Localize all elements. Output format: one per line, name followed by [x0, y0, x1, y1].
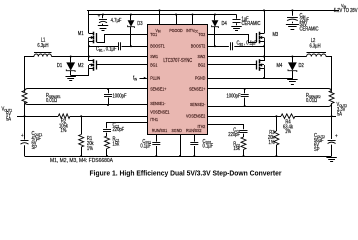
node VOUT1 label	[1, 106, 12, 123]
wire M3 drain to VIN rail	[263, 9, 265, 33]
wire M2 source to ground	[71, 69, 89, 76]
wire VOSENSE2 line	[208, 116, 282, 118]
svg-text:PGOOD: PGOOD	[169, 27, 182, 33]
svg-text:CERAMIC: CERAMIC	[241, 20, 261, 27]
svg-text:VOSENSE1: VOSENSE1	[150, 109, 170, 115]
wire PGND line	[208, 78, 293, 80]
diode D3	[128, 14, 143, 48]
svg-text:M1: M1	[78, 31, 84, 38]
wire SENSE1- line	[25, 102, 149, 105]
capacitor CC2 220pF	[228, 127, 247, 138]
capacitor CSS2 0.1uF	[190, 134, 213, 157]
svg-text:+: +	[335, 133, 338, 140]
inductor L1 6.3uH	[34, 37, 52, 57]
svg-text:4.7µF: 4.7µF	[111, 18, 122, 25]
svg-text:D4: D4	[222, 20, 228, 27]
resistor R1 20k	[79, 115, 94, 157]
wire RSENSE2 to VOUT2 node	[331, 106, 333, 117]
svg-text:5.2V TO 28V: 5.2V TO 28V	[334, 8, 358, 15]
capacitor 1000pF ch2	[226, 88, 248, 107]
wire SENSE1+ line	[25, 89, 149, 93]
resistor R3 20k	[268, 115, 279, 157]
capacitor CIN 22uF 50V ceramic	[286, 9, 319, 32]
svg-text:Figure 1. High Efficiency Dual: Figure 1. High Efficiency Dual 5V/3.3V S…	[90, 168, 282, 177]
resistor R2 105k	[58, 114, 148, 135]
wire bottom ground rail	[25, 156, 332, 158]
svg-text:PGND: PGND	[195, 75, 205, 81]
wire RSENSE1 to VOUT node	[24, 105, 26, 117]
svg-text:M4: M4	[276, 63, 282, 70]
svg-text:0.1µF: 0.1µF	[202, 143, 213, 150]
wire M1 drain to VIN rail	[87, 11, 89, 34]
diode D1	[57, 56, 75, 76]
wire M4 drain to SW2	[264, 57, 266, 62]
note MOSFET types	[50, 158, 114, 164]
wire SGND stub	[179, 134, 181, 157]
svg-text:5A: 5A	[6, 116, 12, 123]
svg-text:PLLIN: PLLIN	[150, 75, 160, 81]
svg-text:0.1µF: 0.1µF	[140, 143, 151, 150]
diode D2	[288, 56, 304, 79]
transistor M3	[257, 32, 279, 44]
capacitor 1uF ceramic	[231, 15, 261, 31]
svg-text:CERAMIC: CERAMIC	[299, 26, 319, 33]
svg-text:VIN: VIN	[155, 27, 160, 33]
ground for D1/M2	[66, 77, 76, 81]
svg-text:D2: D2	[298, 63, 304, 70]
node VOUT2 label	[336, 102, 347, 117]
svg-text:220pF: 220pF	[228, 132, 240, 139]
svg-text:M3: M3	[273, 32, 279, 39]
transistor M2	[78, 59, 97, 71]
wire M2 drain to SW1	[88, 57, 90, 62]
wire SENSE2- line	[208, 103, 332, 107]
capacitor CB1 0.1uF	[89, 42, 148, 53]
wire VOUT1 line	[17, 116, 58, 118]
wire SW2 line	[208, 56, 307, 58]
svg-text:1%: 1%	[285, 129, 292, 136]
wire M1 source to SW1	[88, 42, 90, 58]
svg-text:M2: M2	[78, 63, 84, 70]
capacitor CC1 220pF	[103, 122, 124, 136]
wire ITH2 line	[208, 125, 244, 130]
wire M3 source to SW2	[263, 42, 265, 58]
resistor RC2 15k	[233, 137, 246, 157]
svg-text:BOOST1: BOOST1	[150, 43, 165, 49]
svg-text:ITH1: ITH1	[150, 116, 158, 122]
svg-text:LTC3707-SYNC: LTC3707-SYNC	[163, 57, 192, 63]
transistor M1	[78, 31, 97, 44]
node fIN input	[133, 75, 148, 82]
wire L1 to RSENSE1	[25, 57, 35, 90]
svg-text:1%: 1%	[269, 139, 276, 146]
wire TG2 to M3 gate	[208, 35, 257, 43]
resistor RC1 15k	[105, 136, 120, 157]
ground for D2/PGND	[287, 78, 297, 85]
wire M4 source to PGND	[263, 69, 265, 79]
svg-text:BG1: BG1	[150, 62, 158, 68]
wire BG2 to M4 gate	[208, 64, 257, 66]
wire PGOOD stub	[175, 14, 177, 25]
op-amp U1 LTC3707-SYNC controller IC	[148, 25, 208, 135]
svg-text:1%: 1%	[61, 128, 68, 135]
svg-text:D3: D3	[137, 20, 143, 27]
svg-text:RUN/SS2: RUN/SS2	[186, 128, 202, 134]
svg-text:15k: 15k	[233, 146, 240, 153]
node VIN label	[334, 3, 358, 15]
svg-text:BG2: BG2	[198, 62, 206, 68]
svg-text:M1, M2, M3, M4: FDS6680A: M1, M2, M3, M4: FDS6680A	[50, 158, 114, 164]
VIN rail (top)	[87, 10, 340, 12]
svg-text:SW1: SW1	[150, 53, 158, 59]
svg-text:RUN/SS1: RUN/SS1	[152, 128, 168, 134]
svg-text:SENSE2+: SENSE2+	[189, 86, 206, 92]
capacitor COUT1 47uF	[21, 116, 43, 156]
wire VOUT2 stub	[332, 116, 336, 118]
svg-text:SP: SP	[32, 145, 38, 152]
svg-text:, 0.1µF: , 0.1µF	[103, 46, 116, 53]
svg-text:1000pF: 1000pF	[226, 93, 240, 100]
wire ITH1 line	[107, 123, 149, 129]
svg-text:+: +	[21, 133, 24, 140]
wire VIN pin stub	[159, 9, 161, 24]
svg-text:SENSE1-: SENSE1-	[150, 100, 166, 106]
svg-text:, 0.1µF: , 0.1µF	[244, 40, 257, 47]
svg-text:SW2: SW2	[198, 53, 206, 59]
svg-text:15k: 15k	[113, 141, 120, 148]
svg-text:0.01Ω: 0.01Ω	[306, 97, 318, 104]
wire L2 to RSENSE2	[326, 57, 332, 90]
svg-text:1%: 1%	[87, 145, 94, 152]
diode D4	[212, 14, 227, 48]
svg-text:220pF: 220pF	[113, 127, 125, 134]
svg-text:0.01Ω: 0.01Ω	[46, 97, 58, 104]
wire SW1 line	[52, 56, 149, 58]
transistor M4	[257, 59, 283, 71]
svg-text:D1: D1	[57, 63, 63, 70]
svg-text:L1: L1	[41, 37, 46, 44]
capacitor COUT2 56uF	[314, 116, 338, 156]
svg-text:BOOST2: BOOST2	[191, 43, 206, 49]
svg-text:6.3µH: 6.3µH	[309, 43, 321, 50]
svg-text:SENSE1+: SENSE1+	[150, 86, 167, 92]
resistor R4 63.4k	[281, 114, 332, 136]
capacitor CB2 0.1uF	[208, 40, 265, 50]
svg-text:INTVCC: INTVCC	[186, 27, 199, 33]
ground symbol bottom right	[326, 158, 336, 162]
resistor RSENSE2 0.01ohm	[306, 89, 334, 106]
wire TG1 to M1 gate	[97, 35, 149, 43]
caption Figure 1	[90, 168, 282, 177]
wire BG1 to M2 gate	[97, 64, 149, 66]
svg-text:5A: 5A	[337, 111, 343, 117]
svg-text:+: +	[98, 13, 101, 20]
wire INTVCC stub	[192, 14, 194, 25]
INTVCC line	[89, 14, 237, 16]
wire SENSE2+ line	[208, 89, 332, 93]
capacitor 1000pF ch1	[104, 88, 127, 106]
svg-text:SENSE2-: SENSE2-	[190, 102, 206, 108]
inductor L2 6.3uH	[307, 37, 327, 56]
svg-text:VOSENSE2: VOSENSE2	[186, 113, 206, 119]
svg-text:L2: L2	[311, 37, 316, 44]
capacitor CSS1 0.1uF	[140, 134, 160, 157]
svg-text:6.3µH: 6.3µH	[37, 43, 49, 50]
svg-text:SGND: SGND	[172, 128, 182, 134]
capacitor 4.7uF INTVCC bypass	[98, 13, 122, 31]
svg-text:TG2: TG2	[198, 31, 206, 37]
svg-text:SP: SP	[314, 147, 320, 154]
svg-text:1000pF: 1000pF	[113, 93, 127, 100]
resistor RSENSE1 0.01ohm	[22, 89, 61, 105]
